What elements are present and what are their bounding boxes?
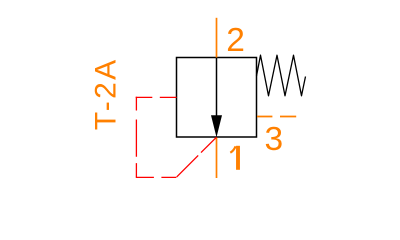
arrow: flow direction (down): [211, 115, 222, 137]
svg-text:T-2A: T-2A: [90, 58, 123, 131]
spring: [257, 55, 306, 96]
port label 1 (custom glyph, no foot serif): [230, 146, 238, 170]
wire: port 2 line (orange, top): [216, 18, 218, 58]
svg-text:2: 2: [226, 22, 245, 59]
pilot line: horizontal dashed segment to valve left edge: [136, 96, 177, 98]
valve body (square): [177, 58, 257, 138]
pilot line: bottom horizontal dashed segment: [136, 176, 177, 178]
svg-text:3: 3: [264, 121, 283, 158]
pilot line: diagonal dashed segment to port 1: [177, 137, 217, 177]
wire: port 1 line (orange, bottom): [216, 138, 218, 179]
wire: internal flow line (black, inside valve): [216, 58, 218, 118]
wire: port 3 dashed line (orange, right): [257, 116, 296, 118]
pilot line: vertical dashed segment: [135, 97, 137, 177]
